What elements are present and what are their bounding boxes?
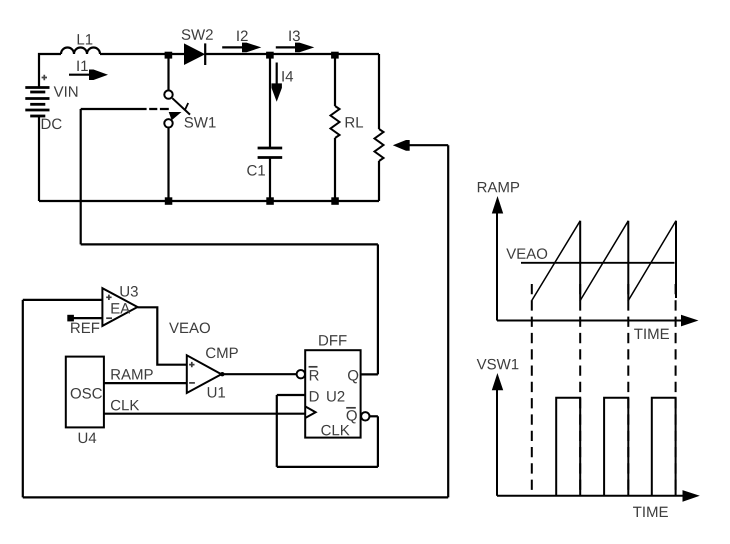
wire D input — [277, 394, 305, 396]
label CMP — [206, 348, 238, 359]
wire EA output to CMP — [138, 307, 187, 364]
overbar of Q bar pin — [346, 407, 356, 409]
ref designator U4 — [79, 433, 97, 443]
node RL top — [331, 52, 339, 59]
wire control from Q — [377, 244, 379, 374]
feedback sense arrow — [393, 140, 410, 151]
ref designator U3 — [120, 286, 137, 297]
value label L1 — [78, 34, 93, 44]
value label I2 — [237, 31, 247, 41]
current arrow I3 — [276, 46, 297, 48]
node C1 bottom — [266, 197, 274, 205]
value label DC — [42, 119, 62, 130]
switch SW1 — [164, 90, 190, 127]
wire feedback left vertical — [22, 300, 24, 498]
value label C1 — [247, 165, 265, 176]
wire top from L1 to diode — [100, 53, 184, 55]
value label SW2 — [182, 29, 213, 40]
pin label CLK — [321, 425, 349, 436]
ref designator U1 — [208, 387, 225, 397]
plot2 y-axis — [496, 389, 498, 496]
wire C1 bottom — [269, 158, 271, 202]
pin label R — [310, 370, 319, 380]
battery VIN — [25, 88, 49, 117]
plot2 x-axis — [497, 495, 684, 497]
wire SW1 top — [167, 54, 169, 90]
wire CMP output — [222, 373, 296, 375]
value label VIN — [54, 86, 78, 96]
resistor RL — [331, 106, 340, 138]
wire battery bottom — [38, 116, 40, 201]
arrow SW1 drive — [169, 112, 182, 120]
pin label Q bar — [347, 410, 357, 423]
value label I3 — [289, 31, 299, 42]
dashed timing line 2 — [579, 284, 581, 493]
value label SW1 — [184, 117, 215, 128]
net label CLK — [111, 400, 139, 411]
plot2 pulse 1 — [556, 398, 580, 496]
wire control horizontal — [81, 243, 378, 245]
label DFF — [319, 335, 346, 345]
plot1 axis label RAMP — [478, 182, 519, 192]
ref designator U2 — [327, 391, 344, 402]
op-amp U3 EA — [102, 288, 137, 326]
node REF square — [67, 315, 74, 322]
wire REF to EA — [71, 317, 103, 319]
overbar of R pin — [309, 366, 318, 368]
resistor output sense — [375, 129, 384, 161]
value label RL — [346, 117, 363, 127]
current arrow I1 — [69, 74, 91, 76]
dashed timing line 4 — [675, 284, 677, 493]
wire RL top — [334, 54, 336, 106]
wire feedback right vertical — [447, 145, 449, 497]
flip-flop U2 DFF box — [305, 350, 360, 437]
diode SW2 — [184, 43, 205, 65]
wire feedback top — [408, 144, 448, 146]
battery plus sign — [42, 75, 47, 80]
plot2 pulse 2 — [604, 398, 628, 496]
wire Q output — [361, 373, 378, 375]
plot1 x-axis — [497, 320, 683, 322]
wire loop up to D — [276, 395, 278, 467]
node top of SW1 — [165, 52, 173, 59]
plot1 sawtooth falling edges — [580, 221, 676, 301]
wire RL bottom — [334, 138, 336, 201]
wire feedback to EA input — [23, 299, 103, 301]
capacitor C1 — [258, 148, 283, 158]
wire top-left rail — [39, 54, 61, 88]
wire SW1 control dashed — [81, 108, 147, 110]
bubble R input — [297, 370, 305, 378]
plot2 axis label VSW1 — [477, 359, 519, 370]
net label REF — [71, 323, 99, 333]
wire RAMP — [104, 382, 187, 384]
value label I4 — [282, 71, 293, 81]
comparator U1 CMP — [187, 355, 225, 393]
wire right branch top — [378, 54, 380, 129]
dashed timing line 1 — [531, 284, 533, 493]
node RL bottom — [331, 197, 339, 205]
wire bottom rail — [39, 200, 379, 202]
label OSC — [71, 388, 102, 399]
plot1 label VEAO — [506, 248, 547, 259]
wire control vertical left — [80, 109, 82, 244]
pin label D — [310, 391, 319, 401]
wire feedback bottom — [23, 496, 448, 498]
inductor L1 — [61, 48, 100, 55]
wire SW1 bottom — [167, 128, 169, 202]
value label I1 — [77, 61, 87, 71]
plot1 y-axis — [496, 212, 498, 321]
wire Q bar to corner — [370, 415, 378, 417]
current arrow I2 — [222, 46, 244, 48]
node C1 top — [266, 52, 274, 59]
clock triangle pin — [305, 406, 315, 418]
wire top from diode to right corner — [205, 53, 379, 55]
current arrow I4 — [276, 63, 278, 87]
plot2 label TIME — [633, 507, 668, 517]
wire Q bar down — [377, 416, 379, 467]
net label VEAO — [169, 323, 210, 334]
plot1 label TIME — [634, 329, 669, 339]
dashed timing line 3 — [627, 284, 629, 493]
oscillator U4 box — [66, 357, 104, 428]
bubble Q bar output — [361, 412, 369, 420]
wire Q bar loop bottom — [277, 466, 378, 468]
plot2 pulse 3 — [652, 398, 676, 496]
plot1 VEAO level line — [521, 262, 675, 264]
pin label Q — [348, 370, 358, 383]
plot1 sawtooth ramps — [532, 221, 676, 301]
node SW1 bottom — [165, 197, 173, 205]
wire C1 top — [269, 54, 271, 148]
label EA — [111, 303, 130, 313]
net label RAMP — [111, 369, 152, 379]
wire CLK — [104, 413, 305, 415]
wire right branch bottom — [378, 161, 380, 201]
